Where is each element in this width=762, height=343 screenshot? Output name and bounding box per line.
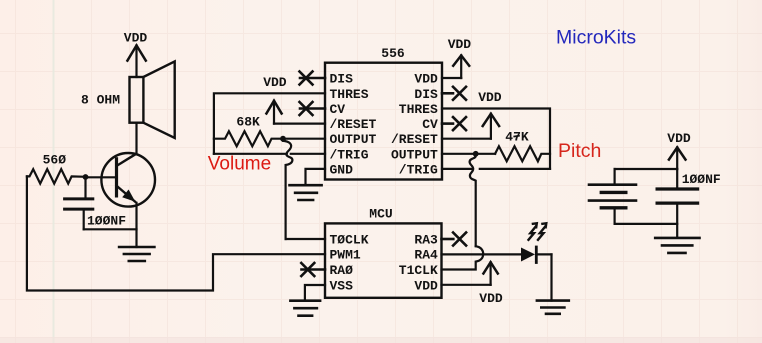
svg-text:RAØ: RAØ [330, 263, 354, 278]
svg-text:Volume: Volume [208, 154, 271, 175]
svg-text:VDD: VDD [478, 90, 502, 105]
svg-text:DIS: DIS [414, 87, 438, 102]
wire T0CLK [286, 238, 325, 240]
resistor R1 560 [27, 169, 86, 183]
svg-text:/RESET: /RESET [391, 132, 438, 147]
svg-text:68K: 68K [236, 114, 260, 129]
svg-text:VDD: VDD [414, 279, 438, 294]
transistor Q1 [86, 153, 156, 207]
wire hop S output to T0CLK [283, 141, 292, 239]
svg-text:VDD: VDD [124, 31, 148, 46]
svg-text:1ØØNF: 1ØØNF [87, 214, 126, 229]
wire RA4 to LED [442, 253, 522, 255]
IC U2 MCU box [325, 223, 442, 297]
wire OUTPUT right [442, 153, 495, 155]
wire GND 556 [306, 169, 326, 185]
wire bottom rail [615, 223, 678, 225]
capacitor C1 100NF [65, 177, 137, 229]
LED D1 [521, 247, 552, 301]
556 pin labels [330, 72, 438, 178]
ground VSS [290, 301, 320, 316]
svg-text:THRES: THRES [330, 87, 369, 102]
text labels schematic [43, 31, 721, 307]
wire VSS to ground [305, 285, 325, 301]
no-connect X DIS left [300, 72, 326, 85]
resistor R3 47K [495, 146, 550, 161]
svg-text:RA4: RA4 [414, 248, 438, 263]
power VDD 556 right [442, 55, 469, 78]
wire THRES right loop [442, 109, 550, 169]
wire hop over RA4 and T1CLK elbow [442, 246, 484, 269]
node base junction [83, 174, 89, 180]
svg-text:/TRIG: /TRIG [330, 147, 369, 162]
svg-text:1ØØNF: 1ØØNF [682, 172, 721, 187]
svg-text:VDD: VDD [667, 131, 691, 146]
svg-text:CV: CV [330, 102, 346, 117]
svg-text:/RESET: /RESET [330, 117, 377, 132]
power VDD speaker [127, 45, 145, 77]
svg-text:GND: GND [330, 162, 354, 177]
svg-text:OUTPUT: OUTPUT [330, 132, 377, 147]
wire OUTPUT left [283, 138, 325, 140]
svg-text:T1CLK: T1CLK [399, 263, 438, 278]
battery B1 [589, 169, 636, 224]
power VDD arrow MCU [442, 262, 498, 285]
wire left riser and bottom run to PWM1 [27, 176, 325, 290]
svg-text:DIS: DIS [330, 72, 354, 87]
ground right [655, 238, 699, 253]
svg-text:MicroKits: MicroKits [556, 27, 636, 49]
wire hop S output right down [470, 156, 476, 246]
node 68K output junction [280, 136, 286, 142]
wire top rail battery cap [615, 168, 678, 170]
svg-text:MCU: MCU [369, 206, 392, 221]
capacitor C2 100NF [657, 169, 698, 238]
no-connect X RA0 [301, 263, 325, 276]
svg-text:VDD: VDD [263, 75, 287, 90]
svg-text:VSS: VSS [330, 279, 354, 294]
svg-text:Pitch: Pitch [558, 140, 601, 162]
svg-text:TØCLK: TØCLK [330, 233, 369, 248]
svg-text:RA3: RA3 [414, 233, 438, 248]
no-connect X CV left [300, 102, 326, 115]
svg-text:8 OHM: 8 OHM [81, 92, 120, 107]
power VDD arrow RESET left [266, 101, 325, 124]
wire TRIG left row [214, 153, 325, 155]
wire speaker to transistor [135, 123, 137, 154]
power VDD arrow RESET right [442, 114, 499, 139]
node 47K output junction [473, 151, 479, 157]
LED arrows [529, 223, 547, 240]
no-connect X RA3 [442, 233, 467, 246]
MCU pin labels [330, 233, 438, 294]
resistor R2 68K [214, 131, 283, 146]
svg-text:VDD: VDD [414, 72, 438, 87]
svg-text:56Ø: 56Ø [43, 153, 67, 168]
svg-text:PWM1: PWM1 [330, 248, 361, 263]
no-connect X CV right [442, 117, 466, 130]
slash on 47K seven [513, 136, 519, 137]
wire TRIG right row [442, 168, 550, 170]
power VDD arrow right [669, 147, 686, 169]
ground LED [537, 301, 569, 314]
svg-text:/TRIG: /TRIG [399, 162, 438, 177]
IC U1 556 box [325, 63, 442, 180]
wire THRES left loop [214, 93, 325, 154]
svg-text:VDD: VDD [448, 37, 472, 52]
svg-text:OUTPUT: OUTPUT [391, 147, 438, 162]
svg-text:CV: CV [422, 117, 438, 132]
wire emitter down [135, 203, 137, 247]
svg-text:THRES: THRES [399, 102, 438, 117]
svg-text:VDD: VDD [479, 291, 503, 306]
speaker SP1 [130, 61, 175, 138]
ground transistor [119, 247, 154, 261]
ground 556 [290, 185, 322, 200]
no-connect X DIS right [442, 87, 466, 100]
svg-text:556: 556 [381, 46, 405, 61]
